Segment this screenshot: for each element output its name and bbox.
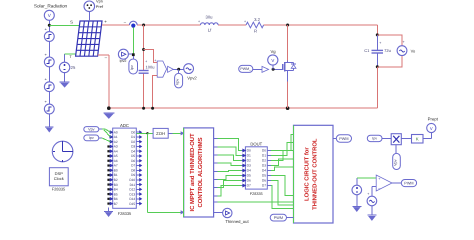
svg-text:S: S (70, 19, 73, 24)
svg-text:V: V (271, 58, 274, 63)
svg-text:D6: D6 (131, 159, 135, 163)
svg-text:D10: D10 (129, 178, 135, 182)
svg-text:72u: 72u (384, 48, 391, 53)
svg-text:D7: D7 (262, 184, 266, 188)
svg-text:D5: D5 (131, 154, 135, 158)
svg-text:D7: D7 (131, 164, 135, 168)
svg-text:+: + (198, 20, 200, 24)
svg-text:B4: B4 (114, 188, 118, 192)
svg-text:Vg: Vg (270, 49, 276, 54)
svg-text:D5: D5 (262, 174, 266, 178)
svg-text:PWM: PWM (404, 181, 413, 185)
svg-text:D3: D3 (247, 164, 251, 168)
svg-text:Ipv: Ipv (130, 65, 134, 70)
svg-text:A5: A5 (114, 154, 118, 158)
svg-text:D1: D1 (247, 154, 251, 158)
svg-text:D1: D1 (131, 135, 135, 139)
svg-text:D6: D6 (262, 179, 266, 183)
svg-text:PWM: PWM (274, 216, 283, 220)
svg-text:B5: B5 (114, 192, 118, 196)
svg-text:Vpv: Vpv (176, 79, 180, 86)
svg-text:25: 25 (71, 65, 76, 70)
svg-text:F28335: F28335 (52, 187, 66, 192)
svg-text:Ipv2: Ipv2 (120, 59, 127, 63)
svg-text:Pref: Pref (96, 4, 104, 9)
svg-text:D9: D9 (131, 173, 135, 177)
svg-text:D2: D2 (247, 159, 251, 163)
svg-text:D0: D0 (131, 130, 135, 134)
svg-text:IC MPPT and THINNED-OUT: IC MPPT and THINNED-OUT (189, 133, 196, 212)
svg-text:F28335: F28335 (118, 211, 132, 216)
svg-text:LOGIC CIRCUIT for: LOGIC CIRCUIT for (304, 147, 311, 201)
svg-text:F28335: F28335 (250, 192, 263, 196)
svg-text:D1: D1 (262, 154, 266, 158)
svg-text:A2: A2 (114, 140, 118, 144)
svg-text:V: V (430, 126, 433, 131)
svg-text:CONTROL ALGORITHMS: CONTROL ALGORITHMS (197, 137, 204, 207)
svg-text:Prept: Prept (428, 117, 439, 122)
svg-text:D15: D15 (129, 202, 135, 206)
svg-text:PWM: PWM (339, 137, 348, 141)
svg-text:+: + (104, 19, 107, 24)
svg-text:Ipv: Ipv (89, 136, 94, 140)
svg-text:Ipv: Ipv (372, 137, 377, 141)
svg-text:D2: D2 (262, 159, 266, 163)
svg-text:D4: D4 (131, 149, 135, 153)
svg-text:D4: D4 (262, 169, 266, 173)
svg-text:ADC: ADC (120, 123, 129, 128)
svg-text:D3: D3 (131, 145, 135, 149)
svg-text:+: + (145, 59, 147, 63)
svg-text:B0: B0 (114, 168, 118, 172)
svg-text:D13: D13 (129, 192, 135, 196)
svg-text:100u: 100u (146, 65, 155, 70)
svg-text:Thinned_out: Thinned_out (225, 219, 249, 224)
svg-text:Solar_Radiation: Solar_Radiation (34, 4, 68, 9)
svg-text:D14: D14 (129, 197, 135, 201)
svg-text:D11: D11 (130, 183, 136, 187)
svg-text:A3: A3 (114, 145, 118, 149)
svg-text:B7: B7 (114, 202, 118, 206)
svg-text:Vpv: Vpv (88, 128, 95, 132)
svg-text:+: + (367, 192, 369, 196)
svg-text:30u: 30u (206, 15, 214, 20)
svg-text:D7: D7 (247, 184, 251, 188)
svg-text:K: K (416, 136, 419, 141)
svg-text:THINNED-OUT CONTROL: THINNED-OUT CONTROL (312, 138, 319, 210)
svg-text:+: + (379, 41, 381, 45)
svg-text:D3: D3 (262, 164, 266, 168)
svg-text:Vpv: Vpv (394, 159, 398, 166)
svg-text:A1: A1 (114, 135, 118, 139)
svg-text:D2: D2 (131, 140, 135, 144)
svg-text:PWM_: PWM_ (240, 67, 252, 71)
svg-text:+: + (403, 40, 405, 44)
svg-text:+: + (154, 58, 156, 62)
svg-text:D4: D4 (247, 169, 251, 173)
svg-text:R: R (254, 29, 257, 34)
svg-text:A6: A6 (114, 159, 118, 163)
svg-text:D0: D0 (247, 149, 251, 153)
svg-text:+: + (244, 20, 246, 24)
svg-text:D8: D8 (131, 168, 135, 172)
svg-text:D0: D0 (262, 149, 266, 153)
svg-text:Clock: Clock (54, 176, 64, 181)
svg-text:ZOH: ZOH (156, 131, 165, 136)
svg-text:3.2: 3.2 (254, 17, 260, 22)
svg-text:DOUT: DOUT (250, 142, 262, 147)
svg-text:D5: D5 (247, 174, 251, 178)
svg-text:Vpv2: Vpv2 (187, 76, 197, 81)
svg-text:A0: A0 (114, 130, 118, 134)
svg-text:A4: A4 (114, 149, 118, 153)
svg-text:DSP: DSP (55, 171, 64, 176)
svg-text:B2: B2 (114, 178, 118, 182)
svg-text:B6: B6 (114, 197, 118, 201)
svg-text:C1: C1 (364, 48, 370, 53)
svg-text:D6: D6 (247, 179, 251, 183)
svg-text:Vo: Vo (411, 48, 416, 53)
svg-text:D12: D12 (129, 188, 135, 192)
svg-text:B3: B3 (114, 183, 118, 187)
svg-text:A7: A7 (114, 164, 118, 168)
svg-text:B1: B1 (114, 173, 118, 177)
